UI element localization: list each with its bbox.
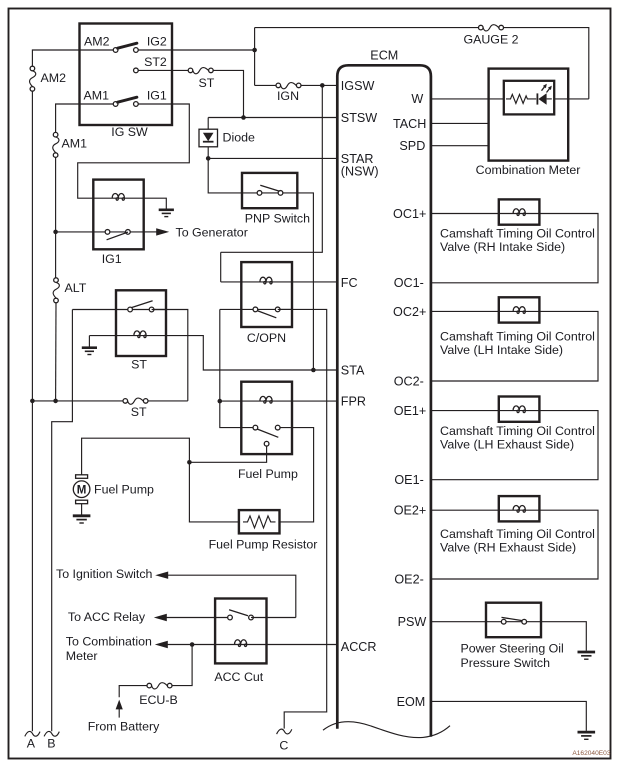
node B feed rail (AM1 drop through fuses) (56, 104, 114, 401)
svg-text:To ACC Relay: To ACC Relay (68, 610, 146, 624)
wire ST coil to ground (88, 336, 90, 347)
wire to generator with arrow (144, 228, 170, 235)
ground (IG1 relay coil) (159, 210, 174, 217)
svg-text:OC1+: OC1+ (393, 207, 426, 221)
wire diode to STAR row and PNP switch (208, 147, 242, 193)
wire GAUGE 2 to combination meter (504, 28, 589, 99)
wire rail to IG1 switch (56, 231, 144, 233)
svg-text:To Combination: To Combination (66, 635, 152, 649)
junction dot AM1 rail / IG1 switch (53, 230, 58, 235)
svg-text:OE2+: OE2+ (394, 504, 427, 518)
fuse GAUGE 2 (479, 25, 504, 31)
svg-text:ST: ST (199, 76, 215, 90)
svg-text:From Battery: From Battery (88, 719, 160, 733)
relay ST (72, 290, 166, 356)
wire OE1 loop (431, 411, 598, 480)
switch PNP (242, 173, 297, 208)
switch contact fuel pump relay (253, 425, 280, 446)
svg-text:GAUGE 2: GAUGE 2 (463, 33, 518, 47)
junction dot STSW (241, 115, 246, 120)
motor M fuel pump (73, 475, 90, 504)
wire to combination meter with arrow (ACCR row) (155, 641, 337, 648)
switch contact IG1 relay (105, 230, 130, 240)
svg-text:ST2: ST2 (144, 55, 167, 69)
svg-text:C/OPN: C/OPN (247, 331, 286, 345)
svg-text:ST: ST (131, 405, 147, 419)
relay Fuel Pump (220, 382, 337, 454)
svg-text:STSW: STSW (341, 111, 377, 125)
svg-text:OE1+: OE1+ (394, 404, 427, 418)
wire C/OPN switch left down to fuel pump relay (220, 309, 256, 427)
junction dot STA (311, 368, 316, 373)
svg-text:OC2+: OC2+ (393, 305, 426, 319)
ignition switch IG SW box (80, 24, 173, 126)
wire PNP right down to STA junction (297, 193, 313, 370)
junction dot A rail (30, 399, 35, 404)
svg-text:FPR: FPR (341, 395, 366, 409)
resistor (meter lamp) (506, 94, 536, 103)
wire ST switch right to ST fuse (152, 310, 188, 401)
junction dot FPR coil (218, 399, 223, 404)
wire motor to ground (81, 504, 83, 515)
switch contact ACC Cut (228, 610, 296, 620)
svg-text:IG2: IG2 (147, 35, 167, 49)
svg-text:C: C (279, 739, 288, 753)
switch contact AM2-IG2 (113, 43, 138, 52)
connector C (277, 729, 292, 734)
junction dot STAR (206, 156, 211, 161)
wire IG2 to junction (138, 49, 254, 51)
svg-text:Camshaft Timing Oil Control: Camshaft Timing Oil Control (440, 227, 595, 241)
wire PSW row (431, 622, 586, 651)
svg-text:B: B (47, 736, 55, 750)
wire STSW row (208, 117, 337, 119)
valve coil OE2 (499, 496, 540, 521)
junction dot IGSW (320, 83, 325, 88)
switch contact C/OPN (253, 307, 280, 318)
ground (EOM) (578, 732, 596, 739)
relay C/OPN (220, 252, 337, 327)
diode (199, 129, 218, 147)
wire ST switch left down to node B (52, 310, 73, 732)
wire OE2 loop (431, 510, 598, 579)
svg-text:IGSW: IGSW (341, 79, 375, 93)
relay IG1 (93, 180, 166, 250)
wire EOM row (431, 701, 586, 731)
svg-text:Meter: Meter (66, 649, 98, 663)
junction dot motor branch (187, 460, 192, 465)
combination meter box (489, 69, 569, 161)
svg-text:IG1: IG1 (147, 89, 167, 103)
wire IGN to IGSW pin (301, 84, 337, 86)
svg-text:OC1-: OC1- (394, 276, 424, 290)
wire relay NO contact to resistor (280, 428, 314, 522)
junction dot AM1 rail end (53, 399, 58, 404)
svg-text:AM1: AM1 (62, 137, 88, 151)
svg-text:ACCR: ACCR (341, 640, 377, 654)
op ECM box (323, 65, 450, 737)
svg-text:AM2: AM2 (41, 71, 67, 85)
wire SPD row (431, 145, 489, 147)
svg-text:(NSW): (NSW) (341, 165, 379, 179)
wire W row (431, 98, 589, 100)
svg-text:Valve (RH Exhaust Side): Valve (RH Exhaust Side) (440, 540, 576, 554)
fuse ECU-B (147, 683, 172, 689)
connector A (25, 731, 40, 736)
svg-text:W: W (411, 92, 423, 106)
svg-text:FC: FC (341, 276, 358, 290)
svg-text:ST: ST (131, 357, 147, 371)
wire STAR row (208, 157, 337, 159)
wire C/OPN switch right down to connector C (278, 309, 327, 728)
svg-text:IGN: IGN (277, 89, 299, 103)
svg-text:PSW: PSW (398, 615, 427, 629)
wire junction vertical to IGN (254, 28, 256, 86)
svg-text:EOM: EOM (397, 695, 426, 709)
wire ST coil to STA line (166, 336, 337, 370)
wire IG1 to IG1 relay coil (78, 104, 190, 198)
svg-text:Fuel Pump Resistor: Fuel Pump Resistor (209, 538, 318, 552)
svg-text:Fuel Pump: Fuel Pump (94, 483, 154, 497)
fuse AM1 (53, 132, 59, 157)
ground (PSW) (578, 652, 596, 659)
svg-text:AM1: AM1 (84, 89, 110, 103)
wire OC2 loop (431, 311, 598, 381)
svg-text:Valve (LH Intake Side): Valve (LH Intake Side) (440, 343, 563, 357)
svg-text:A: A (27, 736, 36, 750)
fuse ST (starter row) (123, 398, 148, 404)
svg-text:ALT: ALT (65, 281, 87, 295)
wire relay NC contact to motor branch (189, 446, 266, 462)
svg-text:To Generator: To Generator (176, 226, 248, 240)
svg-text:Valve (RH Intake Side): Valve (RH Intake Side) (440, 240, 565, 254)
svg-text:M: M (77, 485, 87, 497)
svg-text:Combination Meter: Combination Meter (476, 163, 581, 177)
svg-text:OE1-: OE1- (394, 473, 423, 487)
fuse IGN (255, 84, 277, 86)
lamp cell box (combination meter) (504, 81, 554, 115)
arrow from battery (116, 700, 123, 718)
svg-text:Diode: Diode (223, 131, 255, 145)
wire to ignition switch with arrow (155, 572, 296, 618)
wire TACH row (431, 122, 489, 124)
svg-text:STA: STA (341, 363, 365, 377)
wire ST fuse row (32, 400, 123, 402)
wire motor branch vertical (82, 438, 239, 522)
connector B (44, 731, 59, 736)
svg-text:ACC Cut: ACC Cut (214, 670, 263, 684)
svg-text:Fuel Pump: Fuel Pump (238, 467, 298, 481)
svg-text:To Ignition Switch: To Ignition Switch (56, 567, 153, 581)
svg-text:OE2-: OE2- (394, 573, 423, 587)
ground (fuel pump motor) (73, 516, 91, 523)
wire STSW to diode (207, 118, 209, 130)
svg-text:Power Steering Oil: Power Steering Oil (461, 642, 564, 656)
resistor Fuel Pump Resistor (239, 510, 280, 533)
wire ST fuse to STSW (213, 70, 243, 117)
svg-text:SPD: SPD (399, 139, 425, 153)
svg-text:Camshaft Timing Oil Control: Camshaft Timing Oil Control (440, 527, 595, 541)
contact ST2 (134, 68, 189, 73)
fuse ST (ignition) (188, 68, 213, 74)
svg-text:IG1: IG1 (102, 252, 122, 266)
LED lamp (537, 84, 551, 105)
fuse ALT (53, 278, 59, 303)
svg-text:PNP Switch: PNP Switch (245, 211, 310, 225)
fuse AM2 (30, 66, 36, 91)
svg-text:ECM: ECM (370, 49, 398, 63)
svg-text:IG SW: IG SW (111, 125, 148, 139)
relay ACC Cut (215, 599, 266, 664)
svg-text:Valve (LH Exhaust Side): Valve (LH Exhaust Side) (440, 438, 574, 452)
junction dot IG2 (252, 48, 257, 53)
valve coil OE1 (499, 397, 540, 422)
svg-text:Camshaft Timing Oil Control: Camshaft Timing Oil Control (440, 424, 595, 438)
svg-text:TACH: TACH (393, 117, 426, 131)
switch power steering oil pressure (486, 603, 541, 638)
svg-text:Pressure Switch: Pressure Switch (461, 656, 551, 670)
svg-text:A162040E03: A162040E03 (572, 750, 610, 757)
switch contact AM1-IG1 (113, 97, 138, 106)
wire ECU-B feed (172, 645, 192, 686)
valve coil OC2 (499, 297, 540, 322)
junction dot ECU-B feed (190, 642, 195, 647)
svg-text:ECU-B: ECU-B (139, 693, 178, 707)
switch contact ST relay (128, 301, 154, 312)
valve coil OC1 (499, 199, 540, 224)
wire to ACC relay with arrow (154, 614, 230, 621)
svg-text:OC2-: OC2- (394, 375, 424, 389)
ground (ST relay coil) (82, 348, 97, 355)
svg-text:AM2: AM2 (84, 35, 110, 49)
wire IGSW junction down to node (221, 85, 323, 252)
wire OC1 loop (431, 214, 598, 283)
node A rail (AM2 feed, left vertical) (32, 50, 113, 731)
svg-text:Camshaft Timing Oil Control: Camshaft Timing Oil Control (440, 329, 595, 343)
wire top bus to GAUGE 2 (255, 27, 479, 29)
